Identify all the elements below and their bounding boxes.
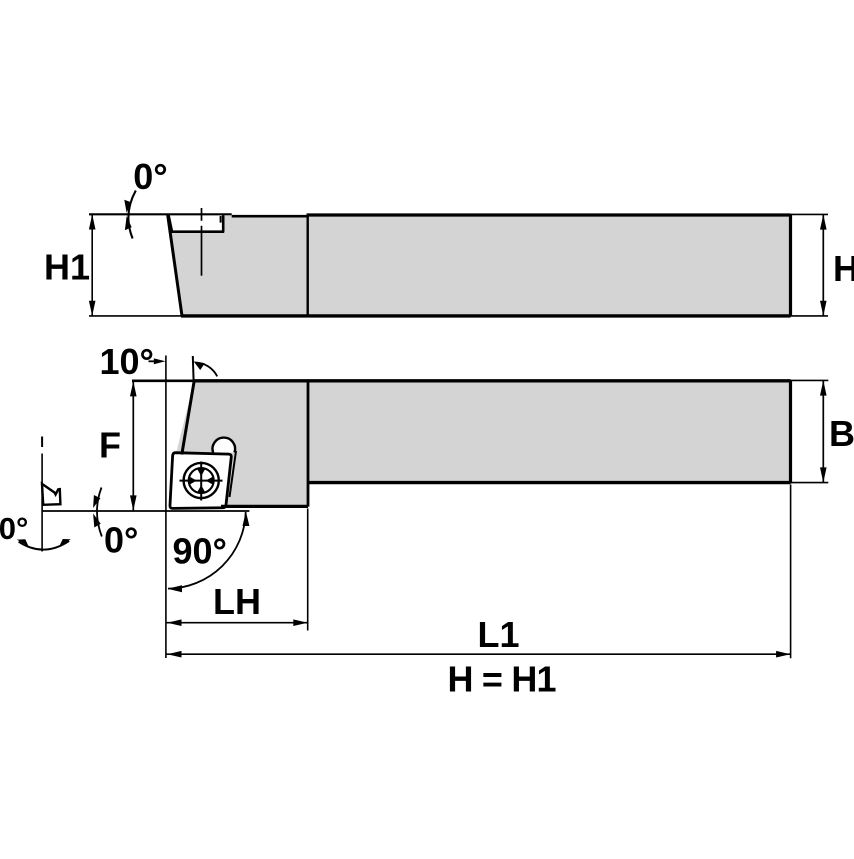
svg-text:10°: 10°	[100, 341, 154, 382]
svg-text:0°: 0°	[133, 156, 167, 197]
svg-text:H1: H1	[44, 247, 90, 288]
svg-text:90°: 90°	[173, 531, 227, 572]
svg-text:F: F	[99, 425, 121, 466]
svg-text:L1: L1	[478, 614, 520, 655]
svg-text:LH: LH	[213, 581, 261, 622]
svg-text:0°: 0°	[104, 520, 138, 561]
svg-text:B: B	[829, 413, 854, 454]
svg-text:H = H1: H = H1	[448, 659, 557, 700]
svg-text:0°: 0°	[0, 511, 28, 546]
svg-text:H: H	[833, 248, 854, 289]
